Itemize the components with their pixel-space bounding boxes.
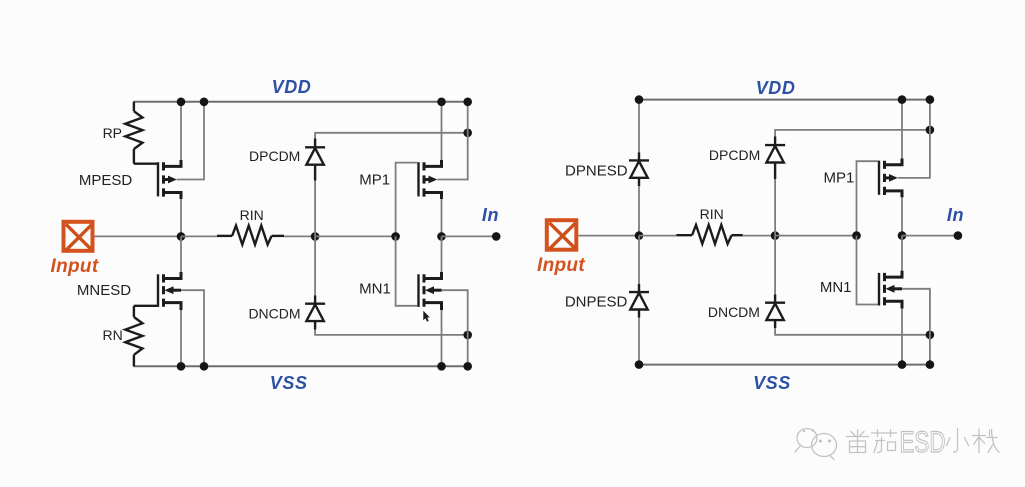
wire MP1 drain to output right — [901, 197, 903, 235]
junction VDD rail dot 2 right — [898, 95, 907, 104]
resistor RP — [125, 102, 157, 164]
wire MPESD drain to VDD — [180, 102, 182, 160]
mouse cursor — [423, 311, 430, 322]
svg-text:MN1: MN1 — [359, 280, 391, 297]
resistor RIN left — [217, 226, 284, 245]
svg-text:VSS: VSS — [270, 373, 308, 393]
wire MNESD body to VSS — [181, 290, 204, 366]
svg-text:DPCDM: DPCDM — [249, 148, 300, 164]
watermark icon — [795, 429, 837, 460]
svg-text:DNCDM: DNCDM — [708, 304, 760, 320]
wire MP1 gate column right — [857, 161, 878, 235]
wire mid node down to DNCDM — [314, 236, 316, 295]
wire MP1 gate column left — [396, 163, 418, 237]
junction VDD rail dot 3 right — [926, 95, 935, 104]
diode DNCDM right — [765, 295, 785, 329]
diode DPCDM left — [305, 139, 325, 181]
wire MP1 body to VDD right — [898, 100, 930, 178]
svg-text:VDD: VDD — [756, 78, 796, 98]
svg-text:RIN: RIN — [240, 207, 264, 223]
junction VSS rail dot 3 right — [926, 360, 935, 369]
wire output to In terminal right — [902, 235, 958, 237]
svg-text:VSS: VSS — [753, 373, 791, 393]
svg-text:DPCDM: DPCDM — [709, 147, 760, 163]
VSS rail right — [639, 364, 930, 366]
VDD rail left — [133, 101, 468, 103]
transistor MNESD — [158, 272, 181, 310]
junction VDD rail dot 1 right — [635, 95, 644, 104]
svg-text:VDD: VDD — [272, 77, 312, 97]
junction VDD rail dot 2 left — [200, 98, 209, 107]
wire MPESD source to input node — [180, 199, 182, 236]
transistor MP1 right — [879, 158, 902, 197]
wire MP1 drain to output left — [441, 199, 443, 236]
In terminal dot right — [954, 231, 963, 240]
junction VDD rail dot 3 left — [437, 98, 446, 107]
wire MNESD drain to input node — [180, 236, 182, 272]
wire RIN to mid node right — [743, 235, 775, 237]
wire DPCDM to MP1 body column right — [775, 130, 930, 137]
wire MPESD body to VDD — [177, 102, 204, 180]
junction DNCDM column right — [926, 331, 935, 340]
svg-text:DPNESD: DPNESD — [565, 163, 628, 180]
VDD rail right — [639, 99, 930, 101]
svg-text:MN1: MN1 — [820, 279, 852, 296]
wire output to In terminal left — [442, 235, 497, 237]
wire mid node down to DNCDM right — [774, 236, 776, 295]
svg-text:In: In — [947, 205, 964, 225]
wire RIN to mid node — [284, 235, 315, 237]
VSS rail left — [133, 365, 468, 367]
svg-text:DNPESD: DNPESD — [565, 294, 628, 311]
wire MN1 gate column right — [857, 236, 878, 305]
wire MP1 source to VDD left — [441, 102, 443, 160]
transistor MP1 left — [419, 160, 442, 199]
transistor MPESD — [158, 160, 181, 199]
junction VSS rail dot 1 left — [177, 362, 186, 371]
junction output node left — [437, 232, 446, 241]
wire DPCDM to MP1 body column — [315, 133, 468, 139]
junction VSS rail dot 2 left — [200, 362, 209, 371]
svg-text:MPESD: MPESD — [79, 172, 133, 189]
wire VDD to DPNESD — [638, 100, 640, 153]
svg-text:RP: RP — [103, 125, 122, 141]
wire mid node to gate node left — [315, 235, 396, 237]
wire input pad to node right — [578, 235, 639, 237]
In terminal dot left — [492, 232, 501, 241]
input pad left — [64, 222, 93, 251]
wire MN1 drain to output right — [901, 236, 903, 271]
junction VSS rail dot 4 left — [463, 362, 472, 371]
diode DPNESD — [629, 152, 649, 186]
wire DNCDM to MN1 body column right — [775, 328, 930, 335]
wire input node to RIN right — [639, 235, 676, 237]
svg-text:MNESD: MNESD — [77, 282, 131, 299]
watermark char fan — [847, 430, 869, 453]
wire mid node up to DPCDM right — [774, 179, 776, 236]
wire MN1 source to VSS left — [441, 310, 443, 366]
junction mid node right — [771, 231, 780, 240]
svg-text:RN: RN — [102, 327, 122, 343]
wire mid node to gate node right — [775, 235, 856, 237]
wire MN1 source to VSS right — [901, 309, 903, 365]
wire MN1 body to VSS right — [902, 289, 930, 365]
wire MP1 source to VDD right — [901, 100, 903, 159]
svg-text:DNCDM: DNCDM — [248, 305, 300, 321]
wire mid node up to DPCDM — [314, 181, 316, 237]
junction VDD rail dot 4 left — [463, 98, 472, 107]
input pad right — [547, 220, 577, 250]
junction VSS rail dot 3 left — [437, 362, 446, 371]
svg-text:Input: Input — [51, 256, 99, 277]
junction DPCDM column left — [463, 129, 472, 138]
transistor MN1 right — [879, 271, 902, 309]
resistor RIN right — [676, 225, 742, 244]
svg-text:MP1: MP1 — [359, 172, 390, 189]
svg-text:RIN: RIN — [700, 206, 724, 222]
junction gate node left — [391, 232, 400, 241]
wire input node to DNPESD — [638, 236, 640, 284]
wire MNESD source to VSS — [180, 310, 182, 366]
diode DNPESD — [629, 284, 649, 318]
svg-text:ESD: ESD — [900, 426, 946, 459]
watermark char xiao — [947, 429, 969, 453]
watermark char zhan — [973, 429, 1000, 453]
junction DNCDM column left — [463, 331, 472, 340]
diode DNCDM left — [305, 296, 325, 330]
watermark char qie — [872, 430, 897, 453]
junction mid node left — [311, 232, 320, 241]
transistor MN1 left — [419, 272, 442, 310]
svg-text:MP1: MP1 — [823, 169, 854, 186]
svg-text:Input: Input — [537, 255, 585, 276]
wire MN1 body to VSS left — [442, 290, 468, 366]
wire MP1 body to VDD left — [437, 102, 467, 180]
resistor RN — [125, 306, 157, 367]
junction output node right — [898, 231, 907, 240]
junction VSS rail dot 2 right — [898, 360, 907, 369]
junction DPCDM column right — [926, 126, 935, 135]
junction VSS rail dot 1 right — [635, 360, 644, 369]
junction input node left — [177, 232, 186, 241]
junction gate node right — [852, 231, 861, 240]
diode DPCDM right — [765, 137, 785, 180]
wire MN1 drain to output left — [441, 236, 443, 272]
junction input node right — [635, 231, 644, 240]
wire input pad to node — [95, 235, 182, 237]
wire DNPESD to VSS — [638, 318, 640, 365]
junction VDD rail dot 1 left — [177, 98, 186, 107]
wire DPNESD to input node right — [638, 186, 640, 236]
wire MN1 gate column left — [396, 236, 418, 305]
wire node to RIN — [181, 235, 217, 237]
svg-text:In: In — [482, 205, 499, 225]
wire DNCDM to MN1 body column — [315, 330, 468, 335]
